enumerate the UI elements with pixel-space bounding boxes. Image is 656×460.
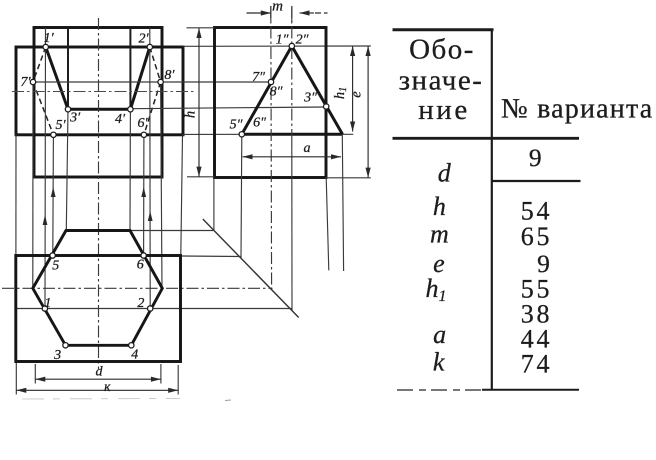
- dimension m right arrow: [300, 10, 310, 15]
- table header underline: [393, 137, 580, 140]
- svg-text:№ варианта: № варианта: [501, 94, 653, 125]
- svg-text:к: к: [104, 379, 111, 394]
- dimension h top arrow: [196, 28, 201, 38]
- point 5" 6": [239, 132, 244, 137]
- table top border: [393, 28, 494, 31]
- projection line x=130.4 from 4' down to hexagon top-right: [129, 109, 131, 230]
- point 1 plan: [42, 306, 47, 311]
- point 5 plan: [50, 253, 55, 258]
- point 5': [51, 132, 56, 137]
- dimension h1 bottom arrow: [350, 122, 355, 132]
- up arrow on line 2: [148, 211, 153, 221]
- front view: hidden line 7'-5': [33, 82, 53, 135]
- projection line x=53.4 from 5' down to plan point 5: [52, 135, 55, 256]
- dimension a left arrow: [243, 154, 253, 159]
- svg-text:2′: 2′: [138, 32, 149, 47]
- side view rectangle: [215, 28, 327, 178]
- svg-text:m: m: [272, 0, 283, 15]
- front view: vertical rectangle: [34, 28, 162, 178]
- transfer horizontal y=308.5 through plan points 1 2: [16, 308, 293, 310]
- point 4 plan: [129, 343, 134, 348]
- svg-text:7″: 7″: [252, 70, 265, 85]
- m extension solid top right: [291, 7, 293, 23]
- dimension e bottom extension: [326, 177, 371, 179]
- svg-text:3″: 3″: [303, 91, 317, 106]
- dimension h extension bottom: [187, 176, 214, 178]
- dimension k extension left: [15, 363, 17, 395]
- dimension k extension right: [177, 365, 179, 395]
- svg-text:d: d: [96, 365, 104, 380]
- svg-text:k: k: [433, 348, 445, 377]
- point 3": [324, 104, 329, 109]
- svg-text:65: 65: [521, 222, 553, 251]
- dimension e bottom arrow: [366, 168, 371, 178]
- front view: horizontal rectangle: [16, 47, 183, 135]
- table bottom border dashed part: [397, 389, 482, 391]
- svg-text:4′: 4′: [115, 112, 126, 127]
- dimension m line right part: [300, 12, 315, 14]
- svg-text:3′: 3′: [69, 110, 81, 125]
- svg-text:5″: 5″: [230, 118, 243, 133]
- up arrow on line 5: [51, 187, 56, 197]
- faint artifact dot right: [225, 399, 231, 402]
- svg-text:1″: 1″: [276, 33, 289, 48]
- dimension d right arrow: [151, 377, 161, 382]
- dimension d line: [35, 378, 161, 380]
- front view: section line 1'-3': [46, 47, 68, 109]
- dimension m line left part: [247, 12, 271, 14]
- up arrow on line 1: [43, 215, 48, 225]
- point 6': [141, 132, 146, 137]
- front view: horizontal centerline: [12, 91, 196, 93]
- svg-text:e: e: [349, 91, 365, 98]
- svg-text:2: 2: [137, 296, 144, 311]
- projection line x=143.9 from 6' down to plan point 6: [143, 135, 145, 256]
- hanging line x=325.6 below side view: [326, 178, 329, 271]
- front view: inner edge left x=68: [67, 28, 69, 110]
- svg-text:значе-: значе-: [399, 65, 484, 97]
- front view: section line 4'-2': [130, 47, 149, 109]
- svg-text:ние: ние: [418, 94, 469, 126]
- point 2': [147, 44, 152, 49]
- svg-text:h: h: [183, 111, 199, 118]
- point 7" 8": [268, 79, 273, 84]
- cone axis centerline x=291.8: [291, 6, 293, 140]
- projection line level of 1' 2' apex y=46: [183, 45, 371, 47]
- svg-text:m: m: [430, 220, 449, 249]
- svg-text:a: a: [304, 141, 311, 156]
- dimension d extension right: [160, 364, 162, 384]
- m extension solid top left: [270, 6, 272, 21]
- svg-text:1′: 1′: [44, 31, 55, 46]
- dimension e line: [367, 46, 369, 178]
- front view: inner edge right x=130.4: [129, 28, 131, 110]
- front view: hidden line 1'-7': [33, 47, 46, 82]
- point 1" 2" apex: [289, 43, 294, 48]
- front view: hidden line 8'-6': [144, 82, 161, 135]
- front view: vertical centerline shared with plan: [98, 18, 100, 369]
- point 3': [65, 107, 70, 112]
- plan view hexagon: [33, 231, 163, 346]
- dimension a right arrow: [331, 154, 341, 159]
- cone left generator: [242, 46, 292, 134]
- dimension k left arrow: [16, 388, 26, 393]
- table column divider: [491, 30, 493, 390]
- projection line level of 5' 6' base y=134.4: [183, 133, 353, 135]
- plan horizontal centerline: [2, 287, 273, 289]
- transfer vertical x=213.9: [213, 178, 215, 231]
- projection line through 3' 4' 3" level y=108.5: [131, 107, 326, 109]
- projection line x=16 down to plan corner: [15, 135, 17, 256]
- svg-text:6″: 6″: [253, 116, 266, 131]
- dimension a line: [243, 156, 342, 158]
- projection line x=241.8 from 5"6" down to diagonal: [240, 134, 243, 258]
- svg-text:6′: 6′: [137, 116, 148, 131]
- dimension m dash tail: [315, 12, 328, 14]
- point 8': [158, 79, 163, 84]
- dimension d extension left: [34, 364, 36, 384]
- svg-text:5′: 5′: [55, 118, 66, 133]
- transfer diagonal 45 degrees: [203, 219, 299, 318]
- dimension m left arrow: [261, 10, 271, 15]
- front view: hidden line 2'-8': [150, 47, 161, 82]
- projection line x=149.8 from 2' down to plan point 2: [149, 28, 151, 309]
- svg-text:3: 3: [53, 348, 61, 363]
- up arrow on line 6: [141, 187, 146, 197]
- svg-text:d: d: [438, 159, 452, 188]
- dimension e top arrow: [366, 46, 371, 56]
- dimension h bottom arrow: [196, 167, 201, 177]
- table bottom border solid part: [482, 389, 579, 391]
- svg-text:h1: h1: [426, 274, 447, 305]
- svg-text:h1: h1: [332, 87, 349, 99]
- cone base: [242, 133, 343, 136]
- dimension k line: [16, 389, 178, 391]
- point 1': [43, 44, 48, 49]
- transfer horizontal y=256: [181, 255, 242, 258]
- faint artifact dashes under k dimension: [22, 398, 180, 401]
- prism axis centerline x=270.8: [270, 6, 273, 290]
- point 7': [30, 79, 35, 84]
- svg-text:7′: 7′: [20, 75, 31, 90]
- dimension h1 top arrow: [350, 46, 355, 56]
- point 2 plan: [148, 306, 153, 311]
- dimension h extension top: [187, 27, 215, 29]
- svg-text:8′: 8′: [164, 68, 175, 83]
- front view: section line 3'-4': [68, 108, 130, 111]
- svg-text:6: 6: [137, 258, 144, 273]
- svg-text:8″: 8″: [270, 85, 283, 100]
- plan view rectangle: [16, 256, 181, 362]
- transfer horizontal y=230.5: [130, 230, 215, 232]
- dimension h1 line: [352, 46, 354, 132]
- dimension d left arrow: [35, 377, 45, 382]
- projection line x=45.7 from 1' down to plan point 1: [44, 28, 47, 309]
- dimension k right arrow: [168, 388, 178, 393]
- point 6 plan: [141, 253, 146, 258]
- svg-text:74: 74: [521, 350, 553, 379]
- projection line x=33 from 7' down to plan left vertex: [32, 82, 34, 288]
- svg-text:4: 4: [131, 347, 138, 362]
- projection line x=160.6 from 8' down to plan right vertex: [161, 82, 162, 288]
- projection line x=68 from 3' down to hexagon top-left: [66, 109, 68, 230]
- svg-text:h: h: [433, 192, 446, 221]
- svg-text:Обо-: Обо-: [409, 34, 475, 66]
- point 3 plan: [63, 343, 68, 348]
- transfer line cone axis down to diagonal: [291, 140, 293, 311]
- projection line x=182 down to plan corner: [181, 135, 183, 256]
- svg-text:5: 5: [52, 258, 59, 273]
- point 4': [128, 107, 133, 112]
- cone right generator: [292, 46, 343, 134]
- hanging line x=341.7 from cone base right: [342, 134, 343, 271]
- svg-text:2″: 2″: [296, 33, 309, 48]
- projection line through 7' 7" 8" level y=82: [33, 81, 271, 83]
- svg-text:9: 9: [529, 143, 542, 172]
- svg-text:a: a: [433, 320, 446, 349]
- table line under variant 9: [492, 180, 581, 182]
- dimension h line: [198, 28, 200, 177]
- svg-text:1: 1: [44, 296, 51, 311]
